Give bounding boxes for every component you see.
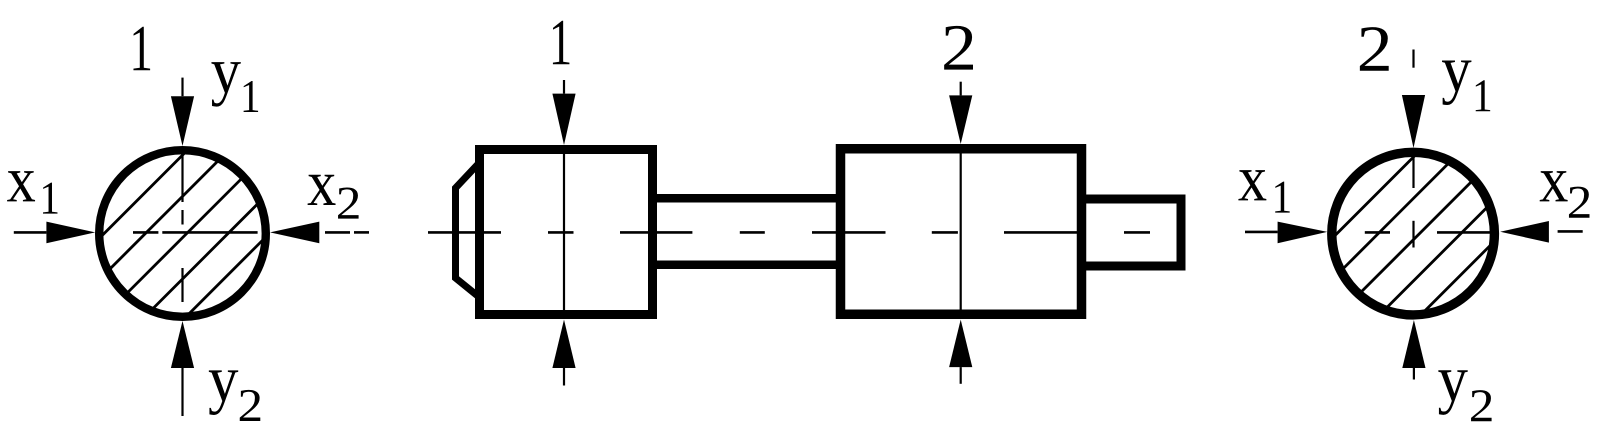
arrow section 2 bottom xyxy=(949,320,972,368)
section circle 1 xyxy=(99,150,266,317)
label x1 (left) xyxy=(7,171,35,201)
arrow y1 top (right) xyxy=(1402,95,1425,148)
shaft journal 1 body xyxy=(480,150,653,315)
label x1 (right) xyxy=(1238,170,1266,200)
right stub end xyxy=(1082,199,1181,266)
centerline horizontal section 1 xyxy=(133,231,369,234)
shaft centerline xyxy=(428,231,1150,234)
centerline vertical section 2 xyxy=(1412,50,1415,380)
label 2 (right section) xyxy=(1360,27,1389,71)
section circle 2 xyxy=(1332,152,1495,315)
label x2 (left) xyxy=(308,175,336,205)
label y1 (right) xyxy=(1442,61,1471,106)
label 1 (middle) xyxy=(553,21,570,65)
shaft journal 2 body xyxy=(841,149,1082,315)
arrow section 1 top xyxy=(552,94,575,145)
arrow x1 left (right section) xyxy=(1245,231,1278,234)
arrow y2 bottom xyxy=(171,321,194,368)
arrow x1 left xyxy=(14,231,47,234)
section line 2 xyxy=(960,82,962,384)
label 1 (left section) xyxy=(133,27,150,71)
arrow section 2 top xyxy=(949,95,972,144)
label 2 (middle) xyxy=(944,26,973,70)
arrow y2 bottom (right) xyxy=(1402,320,1425,368)
hatching section 2 xyxy=(1104,100,1606,425)
label y2 (right) xyxy=(1438,370,1467,415)
thin shaft middle section xyxy=(653,194,840,203)
hatching section 1 xyxy=(0,100,444,425)
chamfered left end xyxy=(456,163,480,297)
section line 1 xyxy=(563,80,565,386)
arrow x2 right (right section) xyxy=(1500,221,1549,243)
label y2 (left) xyxy=(209,370,238,415)
arrow y1 top xyxy=(171,96,194,146)
centerline vertical section 1 xyxy=(181,78,183,416)
label y1 (left) xyxy=(211,62,240,107)
label x2 (right) xyxy=(1540,171,1568,201)
arrow x2 right xyxy=(270,222,319,244)
arrow section 1 bottom xyxy=(552,320,575,368)
centerline horizontal section 2 xyxy=(1365,231,1583,232)
